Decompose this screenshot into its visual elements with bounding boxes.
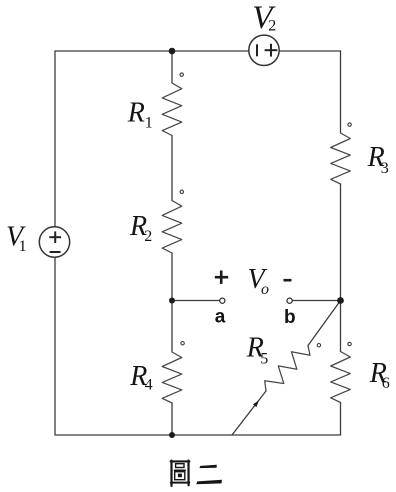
node b terminal circle [287, 298, 292, 303]
source V1 plus sign [49, 231, 61, 243]
wire bottom rail [55, 434, 341, 436]
caption glyph 圖 [171, 461, 190, 486]
terminal dot of R2 [180, 190, 183, 193]
resistor R4 [162, 352, 182, 403]
svg-text:4: 4 [145, 377, 153, 394]
source V1 circle [39, 227, 69, 257]
junction bottom of middle branch [169, 432, 175, 438]
wire right rail between R3 and R6 [340, 184, 342, 352]
plus sign of Vo [215, 271, 228, 284]
wire top-right (V2 right to right rail top) [279, 50, 341, 52]
terminal dot of R1 [180, 73, 183, 76]
junction node a branch [169, 298, 175, 304]
wire below R4 [171, 403, 173, 435]
node a terminal circle [220, 298, 225, 303]
terminal dot of R4 [181, 342, 184, 345]
source V2 plus sign [265, 44, 278, 57]
svg-text:o: o [261, 281, 269, 298]
junction node b / right rail [337, 297, 344, 304]
terminal dot of R6 [348, 342, 351, 345]
resistor R1 [162, 83, 182, 136]
source V2 minus bar [256, 44, 258, 56]
resistor R5 body [265, 346, 310, 392]
svg-text:2: 2 [144, 228, 152, 245]
svg-text:6: 6 [382, 375, 390, 392]
terminal dot of R5 [317, 344, 320, 347]
resistor R2 [162, 201, 182, 254]
wire node b stub [292, 300, 340, 302]
svg-text:1: 1 [145, 114, 153, 131]
wire between R1 and R2 [171, 136, 173, 201]
svg-text:3: 3 [381, 160, 389, 177]
svg-text:R: R [127, 97, 145, 128]
svg-text:5: 5 [260, 351, 268, 368]
terminal dot of R3 [348, 123, 351, 126]
svg-text:1: 1 [19, 238, 27, 255]
resistor R5 lower lead [232, 391, 266, 435]
wire right rail below R6 [340, 403, 342, 436]
svg-text:a: a [215, 307, 226, 328]
wire top-left (V1 top to V2 left) [55, 51, 249, 227]
arrowhead on R5 lead [253, 400, 259, 407]
resistor R6 [331, 352, 351, 403]
svg-text:b: b [284, 307, 296, 328]
source V2 circle [249, 35, 279, 65]
resistor R5 upper lead [308, 301, 341, 346]
wire middle branch top (top rail to R1) [171, 51, 173, 83]
minus sign of Vo [284, 279, 292, 282]
wire right rail above R3 [340, 51, 342, 133]
junction top of middle branch [169, 48, 176, 55]
svg-text:2: 2 [268, 17, 276, 34]
caption glyph 二 [196, 465, 222, 485]
wire between R2 and R4 (through node junction) [171, 253, 173, 352]
resistor R3 [331, 133, 351, 184]
wire node a stub [172, 300, 220, 302]
wire left rail bottom (V1 bottom to bottom rail) [54, 257, 56, 435]
source V1 minus sign [50, 251, 61, 253]
